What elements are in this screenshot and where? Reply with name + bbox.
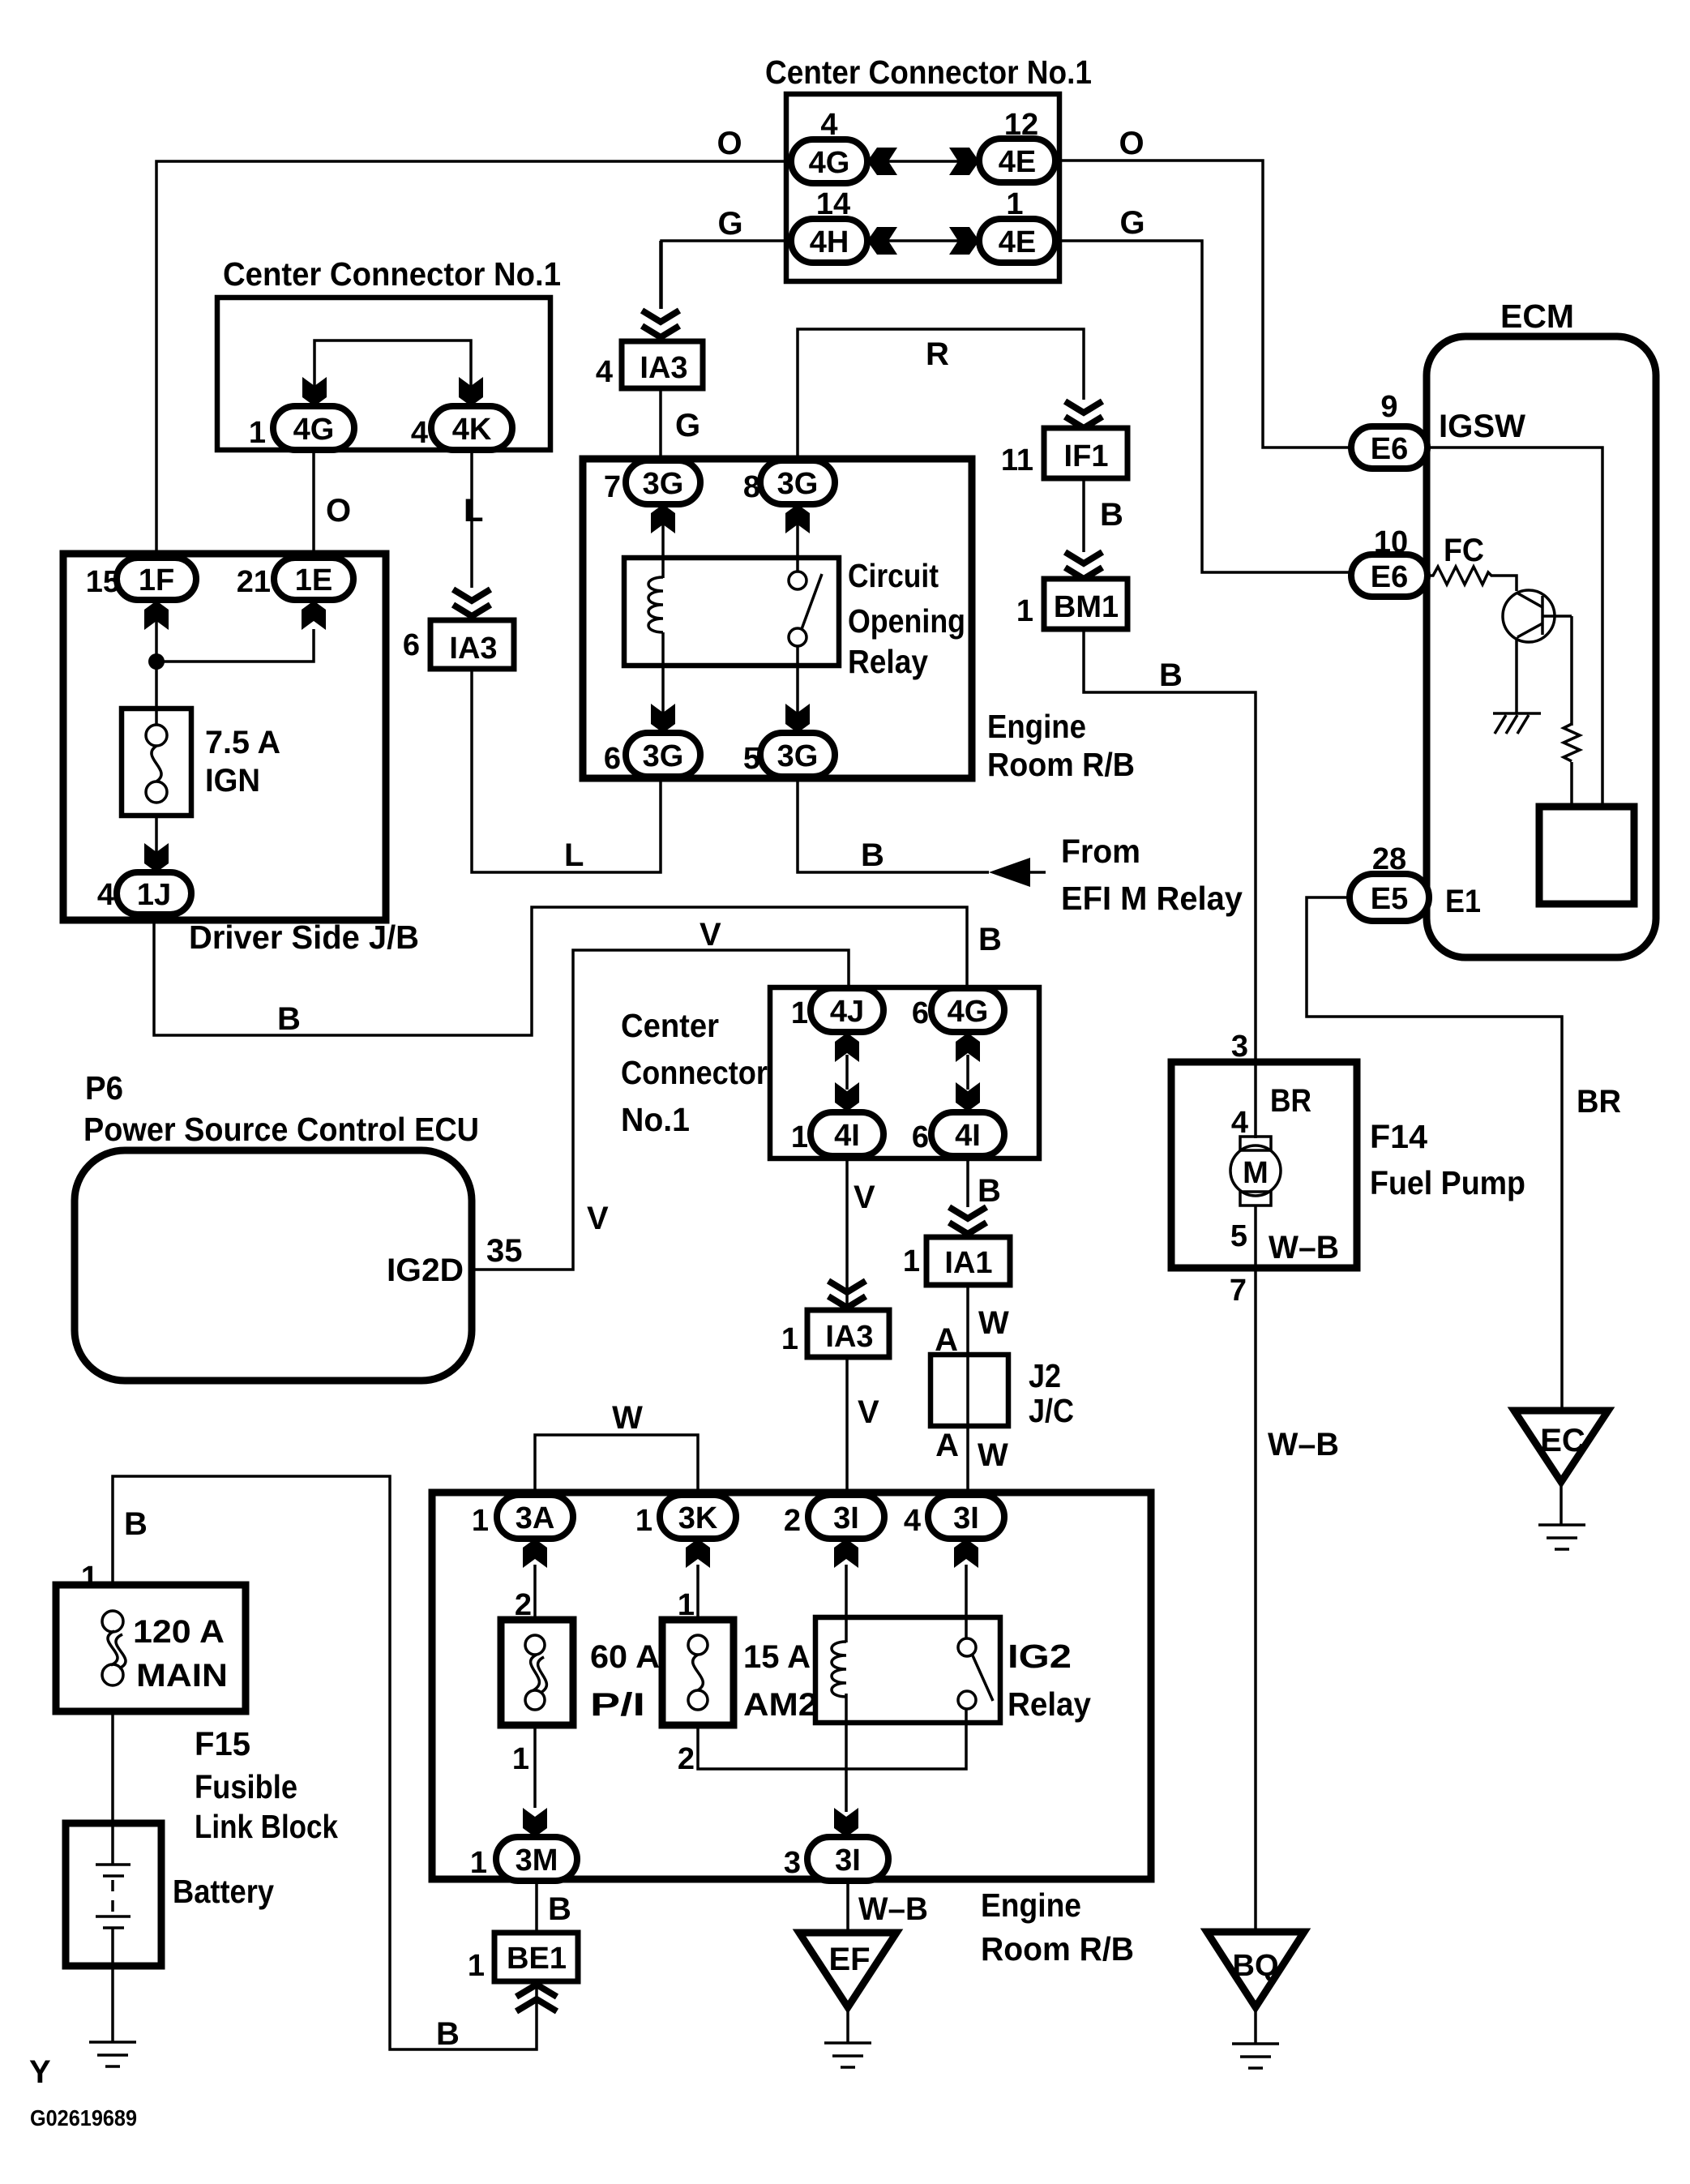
connector 3I pin 4: [904, 1495, 1004, 1539]
connector 4G pin 4: [791, 108, 867, 183]
wire fusible link to battery: [111, 1711, 114, 1865]
ground symbol below battery: [89, 2042, 136, 2066]
connector BE1 pin 1: [468, 1933, 578, 1983]
svg-text:G: G: [1119, 205, 1144, 241]
svg-text:21: 21: [237, 565, 271, 599]
svg-text:E6: E6: [1371, 560, 1408, 594]
arrowhead down into 6-3G: [651, 704, 675, 733]
resistor FC: [1429, 567, 1517, 591]
svg-text:6: 6: [604, 742, 621, 776]
svg-text:B: B: [548, 1891, 571, 1927]
center connector No.1 box (middle): [770, 987, 1039, 1158]
IG2 switch contact top: [958, 1638, 976, 1656]
svg-text:W: W: [612, 1400, 643, 1436]
svg-text:Opening: Opening: [848, 602, 965, 640]
arrowhead up into 8-3G: [785, 504, 810, 533]
chevron junction above IA3: [453, 589, 490, 616]
fuse 60A P/I box: [501, 1620, 573, 1725]
svg-text:B: B: [1100, 497, 1123, 533]
arrowhead up into 3I(4): [954, 1539, 978, 1568]
wire fuse to 1J: [155, 816, 158, 869]
connector 3G pin 7: [604, 460, 700, 504]
svg-text:IG2: IG2: [1008, 1638, 1072, 1675]
ground BQ triangle: [1207, 1932, 1304, 2007]
wire W-B from pin7 to BQ: [1254, 1268, 1257, 1932]
connector 3I pin 3: [784, 1837, 888, 1881]
svg-text:Connector: Connector: [621, 1054, 768, 1091]
svg-text:120 A: 120 A: [133, 1614, 225, 1650]
connector 3K pin 1: [635, 1495, 736, 1539]
wire stub right of arrow: [1030, 871, 1046, 874]
svg-text:EF: EF: [828, 1942, 870, 1977]
svg-text:EFI M Relay: EFI M Relay: [1061, 880, 1243, 917]
svg-text:15 A: 15 A: [743, 1639, 811, 1675]
wire O left from 4G: [156, 161, 791, 559]
svg-text:B: B: [277, 1001, 301, 1037]
center connector No.1 box (upper left): [217, 298, 550, 450]
svg-text:3I: 3I: [953, 1501, 979, 1535]
fuse 7.5A symbol: [146, 725, 167, 803]
wire W bridge 3A to 3K: [535, 1435, 698, 1495]
connector BM1 pin 1: [1016, 579, 1127, 629]
connector 4E pin 1: [979, 187, 1055, 263]
wire battery to ground: [111, 1928, 114, 2041]
wire AM2 to IG2 relay switch: [698, 1709, 966, 1769]
IG2 switch contact bottom: [958, 1691, 976, 1709]
svg-text:F14: F14: [1370, 1118, 1427, 1155]
svg-text:B: B: [1159, 657, 1183, 693]
ground EC triangle: [1514, 1411, 1608, 1482]
svg-text:ECM: ECM: [1500, 298, 1574, 335]
svg-text:V: V: [854, 1180, 875, 1215]
arrow from EFI M Relay: [989, 858, 1030, 887]
connector IA1 pin 1: [903, 1237, 1010, 1285]
wire B from 5-3G to EFI M relay arrow: [798, 777, 989, 872]
transistor Q1: [1503, 590, 1572, 642]
double arrow 4G to 4I: [956, 1033, 980, 1111]
arrowhead into 4K: [459, 377, 483, 406]
wire W from J2 to 3I(4): [966, 1426, 969, 1495]
svg-text:G: G: [717, 206, 742, 242]
Engine Room R/B box (bottom): [432, 1492, 1151, 1879]
svg-text:1J: 1J: [137, 878, 171, 912]
svg-text:IA3: IA3: [825, 1320, 873, 1354]
fuse 15A symbol: [688, 1635, 708, 1710]
ground symbol below EC: [1538, 1525, 1585, 1549]
svg-text:7.5 A: 7.5 A: [205, 725, 280, 760]
svg-text:E5: E5: [1371, 882, 1408, 916]
connector 4E pin 12: [979, 108, 1055, 182]
wire BR from E5 to EC: [1307, 897, 1562, 1411]
svg-text:EC: EC: [1540, 1423, 1585, 1458]
svg-text:4I: 4I: [955, 1119, 981, 1153]
wire 7-3G to coil: [661, 507, 665, 578]
connector 4I pin 1: [791, 1112, 884, 1156]
svg-text:W–B: W–B: [858, 1891, 928, 1927]
center connector No.1 box (top): [786, 94, 1059, 281]
svg-text:2: 2: [678, 1742, 695, 1776]
svg-text:4K: 4K: [452, 413, 492, 447]
svg-text:G02619689: G02619689: [30, 2105, 137, 2130]
arrowhead up into 7-3G: [651, 504, 675, 533]
connector E6 pin 10: [1351, 525, 1427, 597]
connector 3I pin 2: [784, 1495, 884, 1539]
svg-text:Room R/B: Room R/B: [981, 1930, 1134, 1968]
wire V from IG2D to 4J: [472, 950, 849, 1270]
connector 1E pin 21: [237, 558, 353, 600]
svg-text:Relay: Relay: [848, 643, 928, 680]
svg-text:4: 4: [1231, 1106, 1248, 1140]
connector 3M pin 1: [470, 1837, 577, 1881]
arrowhead into 4E row1: [949, 148, 979, 175]
svg-text:4E: 4E: [999, 225, 1036, 259]
ECM box: [1427, 336, 1656, 957]
svg-text:BR: BR: [1577, 1084, 1621, 1120]
fuel pump motor M: [1230, 1137, 1281, 1205]
svg-text:60 A: 60 A: [590, 1639, 660, 1675]
svg-text:Fuel Pump: Fuel Pump: [1370, 1164, 1525, 1201]
arrowhead into 4E row2: [949, 227, 979, 255]
Driver Side J/B box: [63, 554, 386, 920]
wire coil to 6-3G: [661, 632, 665, 730]
svg-text:V: V: [700, 917, 721, 953]
svg-text:B: B: [861, 837, 884, 873]
svg-text:3K: 3K: [678, 1501, 718, 1535]
svg-text:1: 1: [791, 1120, 808, 1154]
arrowhead down into 1J: [144, 843, 169, 872]
connector 3G pin 8: [743, 460, 835, 504]
internal bridge wire 4G to 4K: [314, 340, 471, 404]
svg-text:P/I: P/I: [590, 1687, 645, 1723]
wire 3I to EF: [846, 1881, 849, 1933]
wire branch to 1E arrow: [156, 629, 314, 662]
svg-text:4J: 4J: [830, 995, 864, 1029]
wire L from 4K down to IA3: [470, 450, 473, 588]
inner block inside ECM: [1539, 807, 1634, 904]
connector E6 pin 9: [1351, 390, 1427, 469]
connector 4J pin 1: [791, 988, 884, 1032]
battery symbol: [96, 1865, 130, 1928]
svg-text:Battery: Battery: [173, 1873, 274, 1910]
P6 Power Source Control ECU box: [75, 1150, 472, 1381]
IG2 relay box: [815, 1617, 1000, 1723]
svg-text:BM1: BM1: [1054, 590, 1119, 624]
wire through J2: [966, 1355, 969, 1426]
svg-text:B: B: [978, 922, 1002, 957]
svg-text:3G: 3G: [777, 467, 819, 501]
arrowhead into 4G: [302, 377, 327, 406]
resistor inside ECM: [1564, 724, 1580, 761]
arrowhead down into 3I(3): [834, 1808, 858, 1837]
battery box: [66, 1823, 161, 1966]
wire 3A to 60A fuse: [533, 1565, 537, 1620]
svg-text:11: 11: [1001, 443, 1033, 477]
svg-text:W–B: W–B: [1269, 1230, 1339, 1265]
svg-text:1E: 1E: [295, 563, 332, 597]
connector 4G pin 6: [912, 988, 1004, 1032]
relay coil: [648, 577, 663, 632]
double arrow 4J to 4I: [835, 1033, 859, 1111]
svg-text:IG2D: IG2D: [387, 1253, 464, 1288]
svg-text:Circuit: Circuit: [848, 557, 939, 594]
svg-text:O: O: [1119, 126, 1144, 161]
arrowhead into 4G row1: [867, 148, 897, 175]
svg-text:Center Connector No.1: Center Connector No.1: [765, 54, 1092, 91]
svg-text:L: L: [464, 493, 483, 529]
svg-text:E1: E1: [1445, 884, 1481, 919]
arrowhead down into 3M: [523, 1808, 547, 1837]
svg-text:1: 1: [249, 416, 266, 450]
svg-text:4E: 4E: [999, 145, 1036, 179]
svg-text:1: 1: [635, 1504, 652, 1538]
wire G left from 4H: [661, 241, 791, 309]
fuse 7.5A IGN box: [122, 709, 191, 816]
svg-text:4I: 4I: [834, 1119, 860, 1153]
svg-text:IA3: IA3: [640, 351, 687, 385]
svg-text:4H: 4H: [810, 225, 849, 259]
connector 3G pin 6: [604, 733, 700, 777]
relay switch blade: [802, 574, 822, 629]
svg-text:4G: 4G: [948, 995, 989, 1029]
svg-text:IGSW: IGSW: [1439, 409, 1525, 444]
svg-text:BR: BR: [1270, 1083, 1311, 1119]
svg-text:3A: 3A: [516, 1501, 555, 1535]
svg-text:IA3: IA3: [449, 632, 497, 666]
svg-text:V: V: [587, 1201, 609, 1236]
wire resistor to inner box: [1570, 762, 1573, 807]
svg-text:Engine: Engine: [981, 1886, 1081, 1924]
wire O from 4G down to 1E: [312, 450, 315, 556]
fuse 15A AM2 box: [662, 1620, 734, 1725]
junction J2 J/C box: [931, 1355, 1008, 1426]
svg-text:IF1: IF1: [1064, 439, 1109, 473]
svg-text:No.1: No.1: [621, 1101, 690, 1138]
svg-text:From: From: [1061, 833, 1140, 870]
svg-text:4: 4: [411, 416, 428, 450]
svg-text:4: 4: [97, 878, 114, 912]
svg-text:W: W: [978, 1305, 1009, 1341]
svg-text:1: 1: [81, 1561, 98, 1595]
wire 8-3G to switch: [796, 507, 799, 572]
svg-text:BQ: BQ: [1233, 1949, 1279, 1983]
svg-text:P6: P6: [85, 1069, 123, 1107]
connector 4H pin 14: [791, 187, 867, 263]
Engine Room R/B box (relay): [583, 459, 972, 778]
svg-text:E6: E6: [1371, 432, 1408, 466]
wire switch to 5-3G: [796, 646, 799, 730]
svg-text:B: B: [124, 1506, 148, 1542]
ground symbol below BQ: [1232, 2044, 1279, 2068]
wire 3K to 15A fuse: [696, 1565, 700, 1620]
wire pin3 to motor: [1254, 1062, 1257, 1138]
svg-text:4: 4: [596, 355, 613, 389]
wire B from BE1 to fusible link: [113, 1476, 537, 2049]
svg-text:3G: 3G: [643, 739, 684, 773]
svg-text:J/C: J/C: [1029, 1392, 1074, 1429]
svg-text:1: 1: [472, 1504, 489, 1538]
svg-text:L: L: [564, 837, 584, 873]
svg-text:6: 6: [912, 1120, 929, 1154]
fuse 60A symbol: [525, 1635, 546, 1710]
svg-text:4G: 4G: [809, 146, 850, 180]
svg-text:M: M: [1243, 1156, 1269, 1190]
svg-text:AM2: AM2: [743, 1687, 818, 1723]
chevron junction above BM1: [1065, 552, 1102, 579]
wire below EC: [1560, 1482, 1563, 1524]
wire V from IA3 to 3I: [845, 1355, 849, 1495]
ground EF triangle: [799, 1933, 896, 2007]
connector 4I pin 6: [912, 1112, 1004, 1156]
wire emitter to ground: [1515, 637, 1518, 713]
wire 3M to BE1: [535, 1881, 538, 1933]
connector 4G pin 1: [249, 406, 354, 450]
svg-text:6: 6: [403, 628, 420, 662]
svg-text:3M: 3M: [516, 1844, 558, 1878]
chevron junction above IF1: [1065, 401, 1102, 428]
wire below EF: [846, 2007, 849, 2042]
relay switch contact bottom: [789, 628, 806, 646]
wire B IF1 to BM1: [1082, 478, 1085, 552]
F14 fuel pump box: [1171, 1062, 1357, 1268]
svg-text:3I: 3I: [833, 1501, 859, 1535]
wire G from IA3 to 7-3G: [659, 388, 662, 460]
svg-text:Room R/B: Room R/B: [987, 746, 1135, 783]
svg-text:IGN: IGN: [205, 763, 260, 799]
svg-text:9: 9: [1380, 390, 1397, 424]
svg-text:7: 7: [1230, 1274, 1247, 1308]
arrowhead up into 3I(2): [834, 1539, 858, 1568]
arrowhead into 4H row2: [867, 227, 897, 255]
ground symbol below EF: [824, 2043, 871, 2067]
svg-text:Y: Y: [29, 2054, 51, 2090]
wire L from IA3 to 3G: [472, 669, 661, 872]
IG2 switch blade: [972, 1654, 993, 1701]
wire O right from 4E to ECM E6 pin9: [1055, 161, 1352, 448]
connector IA3 pin 4: [596, 341, 703, 389]
svg-text:A: A: [935, 1428, 959, 1463]
connector IA3 pin 6: [403, 620, 514, 669]
connector 3A pin 1: [472, 1495, 573, 1539]
relay switch contact top: [789, 572, 806, 589]
arrowhead up into 3A: [523, 1539, 547, 1568]
chevron junction below BE1: [516, 1985, 557, 2011]
wire B from 1J to middle connector 4G: [154, 907, 967, 1035]
svg-text:7: 7: [604, 470, 621, 504]
svg-text:1: 1: [1016, 594, 1033, 628]
fusible link block box: [56, 1585, 246, 1711]
svg-text:G: G: [675, 408, 700, 443]
arrowhead up into 3K: [686, 1539, 710, 1568]
svg-text:F15: F15: [195, 1725, 250, 1762]
wire G right from 4E row2 to ECM E6 pin10: [1055, 241, 1352, 572]
svg-text:Center Connector No.1: Center Connector No.1: [223, 255, 561, 293]
wire G from 4H branch down to IA3 (4): [659, 241, 662, 309]
wire W from IA1 to J2: [966, 1285, 969, 1355]
arrowhead down into 5-3G: [785, 704, 810, 733]
connector E5 pin 28: [1350, 842, 1429, 921]
wire motor to pin7: [1254, 1205, 1257, 1268]
connector IF1 pin 11: [1001, 428, 1127, 478]
chevron junction above IA3 (4): [642, 310, 679, 337]
svg-text:W–B: W–B: [1268, 1427, 1339, 1462]
svg-text:1: 1: [781, 1322, 798, 1356]
svg-text:O: O: [717, 126, 742, 161]
svg-text:1: 1: [791, 996, 808, 1030]
wire R from 8-3G up to IF1: [798, 329, 1084, 460]
svg-text:Driver Side J/B: Driver Side J/B: [189, 919, 419, 956]
svg-text:Power Source Control ECU: Power Source Control ECU: [83, 1111, 479, 1148]
svg-text:2: 2: [784, 1504, 801, 1538]
internal IGSW wire: [1427, 448, 1602, 807]
svg-text:Link Block: Link Block: [195, 1808, 338, 1845]
wire B from BM1 to fuel pump: [1084, 629, 1256, 1062]
svg-text:Relay: Relay: [1008, 1685, 1091, 1723]
svg-text:3G: 3G: [777, 739, 819, 773]
svg-text:IA1: IA1: [944, 1246, 992, 1280]
svg-text:B: B: [436, 2016, 460, 2052]
wire between 4G and 4E row1: [875, 160, 971, 163]
svg-text:BE1: BE1: [507, 1942, 567, 1976]
connector 4K pin 4: [411, 406, 512, 450]
svg-text:3I: 3I: [835, 1844, 861, 1878]
wire 1F down to fuse: [155, 604, 158, 725]
wire collector down: [1570, 616, 1573, 726]
svg-text:3: 3: [784, 1846, 801, 1880]
svg-text:V: V: [858, 1394, 879, 1430]
chevron junction above IA1: [949, 1207, 986, 1234]
svg-text:Fusible: Fusible: [195, 1768, 297, 1805]
svg-text:J2: J2: [1029, 1357, 1061, 1394]
connector 1F pin 15: [86, 558, 196, 600]
wire 3I(4) to IG2 switch: [965, 1565, 968, 1639]
svg-text:FC: FC: [1444, 533, 1484, 568]
svg-text:O: O: [326, 493, 351, 529]
svg-text:Center: Center: [621, 1007, 719, 1044]
connector 1J pin 4: [97, 872, 191, 914]
svg-text:1: 1: [512, 1742, 529, 1776]
IG2 relay coil: [832, 1642, 846, 1697]
chassis ground inside ECM: [1493, 713, 1541, 734]
fuse 120A MAIN symbol: [102, 1611, 126, 1685]
svg-text:4G: 4G: [293, 413, 335, 447]
svg-text:3G: 3G: [643, 467, 684, 501]
wire 3I(2) to IG2 coil: [845, 1565, 848, 1642]
junction dot: [148, 653, 165, 670]
svg-text:W: W: [978, 1437, 1008, 1473]
connector 3G pin 5: [743, 733, 835, 777]
relay inner box: [624, 558, 839, 666]
svg-text:1: 1: [468, 1949, 485, 1983]
svg-text:1F: 1F: [139, 563, 174, 597]
svg-text:B: B: [978, 1173, 1001, 1209]
wire coil to 3I(3): [845, 1694, 848, 1812]
arrowhead up into 1F: [144, 601, 169, 630]
wire 60A fuse to 3M: [533, 1725, 537, 1808]
svg-text:1: 1: [903, 1244, 920, 1278]
svg-text:R: R: [926, 336, 949, 372]
wire B from 4I(6) down to IA1: [966, 1157, 969, 1207]
connector IA3 pin 1: [781, 1310, 889, 1357]
svg-text:35: 35: [486, 1233, 523, 1269]
chevron junction above IA3 (1): [828, 1281, 866, 1308]
svg-text:6: 6: [912, 996, 929, 1030]
svg-text:1: 1: [470, 1846, 487, 1880]
wire V from 4I down to IA3: [845, 1157, 849, 1310]
wire below BQ: [1254, 2007, 1257, 2043]
svg-text:4: 4: [904, 1504, 921, 1538]
svg-text:5: 5: [1230, 1219, 1247, 1253]
svg-text:Engine: Engine: [987, 708, 1086, 745]
